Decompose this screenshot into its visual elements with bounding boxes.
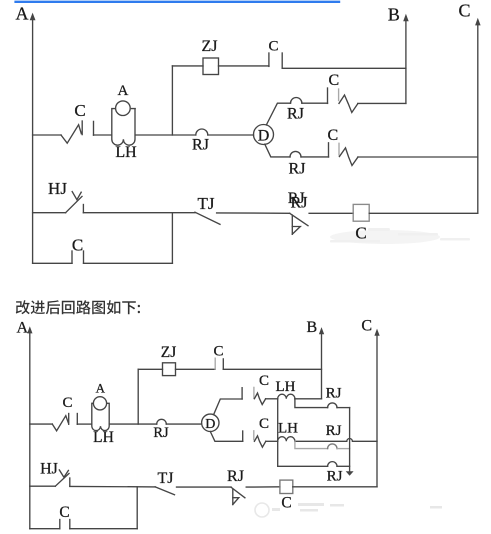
- svg-text:C: C: [328, 72, 339, 89]
- wire: [166, 423, 201, 425]
- wire: [83, 212, 195, 214]
- wire: D to upper branch: [266, 103, 290, 125]
- relay coil ZJ (bottom): [161, 344, 177, 376]
- svg-text:A: A: [16, 3, 29, 23]
- wire: [309, 212, 353, 214]
- svg-text:LH: LH: [93, 429, 114, 446]
- svg-text:C: C: [72, 236, 83, 255]
- svg-text:C: C: [59, 504, 69, 521]
- breaker contact C (branch 2): [243, 416, 269, 447]
- wire: [138, 368, 162, 370]
- svg-text:HJ: HJ: [48, 179, 67, 198]
- wire: [109, 423, 157, 425]
- wire: [217, 212, 290, 214]
- svg-text:A: A: [17, 320, 29, 337]
- svg-text:C: C: [327, 127, 338, 144]
- svg-text:RJ: RJ: [291, 194, 308, 211]
- wire: vertical of C branch: [171, 213, 173, 263]
- svg-text:C: C: [62, 395, 72, 411]
- breaker contact C (bottom main row): [52, 395, 77, 431]
- wire: [77, 423, 92, 425]
- CT loop 3 with heater RJ: [278, 399, 350, 485]
- svg-text:C: C: [259, 373, 269, 389]
- svg-text:RJ: RJ: [287, 106, 304, 123]
- svg-text:RJ: RJ: [227, 468, 244, 485]
- wire: D to branch 1: [214, 399, 243, 415]
- wire: [219, 65, 269, 67]
- svg-text:LH: LH: [276, 379, 296, 395]
- thermal heater RJ (bottom main row): [153, 419, 169, 441]
- wire: vertical ZJ branch (bottom): [137, 369, 139, 424]
- wire: [266, 398, 278, 400]
- svg-text:LH: LH: [115, 144, 137, 161]
- wire to B: [295, 398, 322, 400]
- thermal heater RJ (lower branch): [289, 151, 306, 177]
- wire: [176, 368, 216, 370]
- wire: [30, 423, 53, 425]
- thermal heater RJ (top main row): [192, 129, 209, 154]
- breaker contact C (upper branch): [328, 72, 358, 112]
- wire: [135, 134, 196, 136]
- svg-text:A: A: [96, 381, 106, 396]
- svg-text:RJ: RJ: [153, 425, 169, 441]
- svg-text:C: C: [259, 416, 269, 432]
- watermark smudge (bottom): [255, 503, 442, 517]
- wire: [266, 440, 278, 442]
- contact C (ZJ row, normally open): [268, 38, 282, 68]
- motor D (top): [254, 125, 274, 145]
- wire: [94, 134, 112, 136]
- CT loop 1 with heater RJ: [295, 386, 350, 408]
- contact C (ZJ row bottom, normally open): [213, 343, 223, 369]
- breaker contact C (lower branch): [327, 127, 358, 166]
- svg-text:TJ: TJ: [198, 194, 215, 213]
- svg-text:RJ: RJ: [289, 161, 306, 178]
- common earth of CT loops: [346, 408, 354, 476]
- svg-text:C: C: [281, 495, 291, 512]
- contactor coil C (bottom): [280, 480, 293, 512]
- relay contact HJ: [48, 179, 83, 213]
- svg-text:TJ: TJ: [158, 470, 174, 487]
- thermal relay contact RJ (doubled label): [288, 190, 308, 234]
- wire to C line: [358, 156, 478, 158]
- wire: [33, 212, 66, 214]
- caption: 改进后回路图如下:: [16, 300, 140, 314]
- wire to C line: [369, 212, 478, 214]
- node B (top phase bus): [388, 4, 409, 103]
- svg-text:RJ: RJ: [327, 468, 343, 484]
- svg-text:A: A: [117, 83, 128, 99]
- svg-text:B: B: [388, 4, 400, 24]
- contact C (self hold bottom, normally open): [30, 504, 137, 529]
- wire: D to branch 2: [210, 432, 242, 442]
- wire: A bus to breaker contact: [33, 134, 61, 136]
- breaker contact C (branch 1): [242, 373, 269, 404]
- wire: [246, 486, 280, 488]
- svg-text:C: C: [74, 101, 85, 120]
- svg-text:D: D: [258, 127, 270, 144]
- svg-text:ZJ: ZJ: [202, 38, 218, 55]
- relay contact HJ (bottom): [40, 461, 70, 487]
- contact C (self hold, normally open): [33, 236, 173, 264]
- wire: vertical of C branch (bottom): [136, 487, 138, 529]
- svg-text:B: B: [307, 319, 318, 336]
- svg-text:HJ: HJ: [40, 461, 58, 478]
- current transformer LH (branch 2): [278, 420, 298, 441]
- wire to B: [282, 67, 406, 69]
- current transformer LH (branch 1): [276, 379, 296, 399]
- svg-text:C: C: [355, 224, 366, 243]
- watermark smudge: [330, 228, 470, 244]
- svg-text:LH: LH: [278, 420, 298, 436]
- wire: [302, 102, 328, 104]
- blue top rule: [16, 1, 339, 3]
- wire: [208, 134, 254, 136]
- breaker contact C (top main row): [61, 101, 94, 143]
- node A (top phase bus): [16, 3, 36, 263]
- svg-text:C: C: [268, 38, 278, 54]
- node C (bottom phase bus): [361, 318, 379, 487]
- svg-text:C: C: [361, 318, 372, 335]
- wire to C line with hop over common: [295, 438, 377, 441]
- svg-text:ZJ: ZJ: [161, 344, 177, 361]
- wire to B: [358, 102, 406, 104]
- wire: [177, 486, 232, 488]
- wire: [30, 485, 56, 487]
- wire: vertical ZJ branch: [171, 66, 173, 135]
- wire: D to lower branch: [265, 144, 290, 157]
- wire to C line: [293, 486, 377, 488]
- wire: [70, 485, 155, 488]
- time relay contact TJ (bottom): [155, 470, 174, 495]
- current transformer LH with ammeter A: [112, 83, 137, 161]
- motor D (bottom): [202, 414, 219, 432]
- svg-text:RJ: RJ: [326, 386, 342, 402]
- svg-text:C: C: [213, 343, 223, 359]
- wire: [301, 156, 329, 158]
- node C (top phase bus): [459, 0, 481, 213]
- svg-text:D: D: [205, 417, 215, 432]
- svg-text:RJ: RJ: [326, 423, 342, 439]
- time relay contact TJ: [195, 194, 220, 224]
- node B (bottom phase bus): [307, 319, 325, 399]
- relay coil ZJ: [202, 38, 219, 74]
- wire to B: [223, 368, 321, 370]
- current transformer LH with ammeter A (bottom): [92, 381, 114, 446]
- node A (bottom phase bus): [17, 320, 33, 529]
- contactor coil C (top): [353, 204, 369, 242]
- thermal relay contact RJ (bottom): [227, 468, 245, 504]
- svg-text:C: C: [459, 0, 471, 20]
- svg-text:RJ: RJ: [192, 137, 209, 154]
- CT loop 2 with heater RJ (gray): [295, 423, 350, 449]
- wire: [172, 65, 203, 67]
- thermal heater RJ (upper branch): [287, 97, 304, 122]
